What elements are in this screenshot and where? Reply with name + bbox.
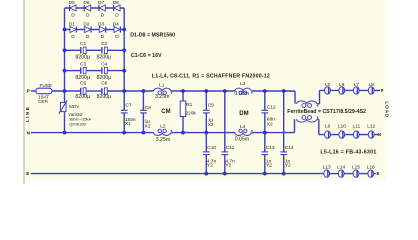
wire C12-C13 branch	[264, 91, 266, 174]
terminal N right	[378, 132, 381, 137]
svg-text:C14: C14	[285, 145, 294, 151]
svg-text:L16: L16	[367, 165, 375, 171]
svg-text:D: D	[86, 34, 90, 40]
junction E rail 2	[223, 172, 227, 176]
junction P rail 3	[142, 89, 146, 93]
wire N bead row	[319, 134, 379, 136]
svg-text:C4: C4	[101, 62, 107, 68]
svg-text:D7: D7	[98, 0, 104, 6]
junction P rail 1	[63, 89, 67, 93]
junction bridge 1	[63, 28, 67, 32]
capacitor C6	[97, 80, 112, 100]
svg-text:D1: D1	[69, 22, 75, 28]
svg-text:L12: L12	[367, 123, 375, 129]
svg-text:R1: R1	[186, 102, 192, 108]
note C1-C6	[131, 53, 162, 59]
svg-text:L8: L8	[369, 82, 375, 88]
junction bridge 3	[63, 48, 67, 52]
wire cap row2 b	[86, 70, 101, 72]
ferrite bead winding N	[297, 116, 319, 123]
ferrite bead L6	[339, 82, 345, 94]
svg-text:X2: X2	[145, 123, 151, 129]
wire diode row D5-D8	[65, 7, 125, 9]
svg-text:L3: L3	[240, 81, 246, 87]
note L5-L16	[320, 150, 376, 156]
svg-text:C11: C11	[226, 145, 235, 151]
svg-text:L5-L16 = FB-43-6301: L5-L16 = FB-43-6301	[320, 150, 376, 156]
wire P rail L1 to L3	[171, 90, 235, 92]
svg-text:C1: C1	[80, 41, 86, 47]
svg-text:DM: DM	[239, 111, 248, 117]
wire C8 branch	[142, 91, 144, 133]
svg-text:C12: C12	[267, 104, 276, 110]
terminal E right	[377, 171, 380, 176]
ferrite bead L9	[325, 123, 331, 138]
wire C14 branch	[283, 91, 285, 174]
wire P rail C5 to C6	[86, 90, 101, 92]
svg-text:D: D	[101, 34, 105, 40]
label LOAD	[383, 101, 389, 118]
svg-text:D4: D4	[113, 22, 119, 28]
svg-text:C7: C7	[125, 102, 131, 108]
svg-text:D: D	[71, 34, 75, 40]
fuse F1	[36, 83, 52, 104]
label CM	[161, 109, 170, 115]
junction N rail 4	[181, 131, 185, 135]
terminal P right	[381, 88, 384, 93]
terminal N left	[27, 130, 31, 135]
wire P ferrite down-leg	[294, 91, 296, 104]
svg-text:0.05m: 0.05m	[234, 91, 248, 97]
svg-text:Y2: Y2	[207, 163, 213, 169]
junction P rail 4	[181, 89, 185, 93]
svg-text:Y2: Y2	[285, 163, 291, 169]
capacitor C11	[221, 145, 235, 169]
capacitor C7	[121, 102, 136, 127]
svg-text:D: D	[86, 12, 90, 18]
svg-text:C6: C6	[101, 80, 107, 86]
inductor L1	[154, 83, 173, 100]
svg-text:L5: L5	[325, 82, 331, 88]
wire N ferrite riser	[318, 119, 320, 134]
terminal P left	[27, 89, 30, 94]
diode D4	[113, 22, 121, 40]
ferrite bead L8	[368, 82, 374, 94]
wire cap row2 c	[107, 70, 124, 72]
svg-text:D5: D5	[69, 0, 75, 6]
svg-text:L13: L13	[323, 165, 331, 171]
ferrite bead winding P	[297, 101, 319, 108]
svg-text:8200µ: 8200µ	[97, 94, 112, 100]
ferrite bead L11	[352, 123, 360, 138]
svg-text:D6: D6	[83, 0, 89, 6]
diode D7	[98, 0, 105, 18]
wire P rail C6 to L1	[107, 90, 153, 92]
capacitor C9	[203, 103, 214, 129]
svg-text:L1-L4, C8-C11, R1 = SCHAFFNER: L1-L4, C8-C11, R1 = SCHAFFNER FN2000-12	[152, 74, 270, 80]
svg-text:L6: L6	[339, 82, 345, 88]
svg-text:LOAD: LOAD	[383, 101, 389, 118]
junction P rail 7	[263, 89, 267, 93]
svg-text:CER: CER	[38, 99, 49, 104]
junction bridge 2	[122, 28, 126, 32]
ferrite bead L5	[325, 82, 331, 94]
junction N rail 6	[263, 131, 267, 135]
ferrite bead L7	[353, 82, 359, 94]
svg-text:D: D	[101, 12, 105, 18]
svg-text:L1: L1	[159, 83, 165, 89]
svg-text:L7: L7	[354, 82, 360, 88]
wire cap row1 a	[65, 49, 81, 51]
svg-text:D1-D8 = MSR1560: D1-D8 = MSR1560	[130, 32, 175, 38]
svg-text:C1-C6 = 16V: C1-C6 = 16V	[131, 53, 162, 59]
junction P rail 2	[122, 89, 126, 93]
wire cap row1 c	[107, 49, 124, 51]
svg-text:D3: D3	[98, 22, 104, 28]
wire right bridge vertical upper	[123, 8, 125, 110]
svg-text:E: E	[377, 171, 380, 176]
ferrite bead L10	[338, 123, 346, 138]
svg-text:8200µ: 8200µ	[75, 55, 90, 61]
inductor L2	[154, 124, 173, 143]
svg-text:L4: L4	[240, 124, 246, 130]
svg-text:C3: C3	[80, 62, 86, 68]
svg-text:3.25m: 3.25m	[155, 94, 169, 100]
junction bridge 4	[122, 48, 126, 52]
svg-text:220k: 220k	[185, 110, 196, 116]
junction N rail 2	[122, 131, 126, 135]
ferrite bead L15	[352, 165, 360, 178]
wire P bead row	[320, 89, 381, 91]
svg-text:L15: L15	[352, 165, 360, 171]
junction E rail 3	[263, 172, 267, 176]
svg-text:L9: L9	[325, 123, 331, 129]
diode D1	[69, 22, 77, 40]
svg-text:C13: C13	[266, 145, 275, 151]
wire N rail L4 to ferrite	[251, 132, 294, 134]
svg-text:FUSE: FUSE	[40, 83, 53, 88]
note D1-D8	[130, 32, 175, 38]
wire left bridge vertical	[64, 8, 66, 133]
wire N rail left	[31, 132, 154, 134]
capacitor C8	[140, 105, 151, 129]
note ferrite bead	[287, 109, 366, 115]
svg-text:X2: X2	[208, 122, 214, 128]
svg-text:Q20K300: Q20K300	[69, 122, 87, 127]
svg-text:E: E	[26, 171, 29, 176]
diode D3	[98, 22, 106, 40]
svg-text:8200µ: 8200µ	[75, 94, 90, 100]
label LINE	[25, 106, 31, 122]
svg-text:D2: D2	[83, 22, 89, 28]
svg-text:X1: X1	[125, 121, 131, 127]
svg-text:N: N	[378, 132, 381, 137]
svg-text:Y2: Y2	[225, 163, 231, 169]
capacitor C3	[75, 62, 90, 82]
terminal E left	[26, 171, 29, 176]
svg-text:0.05m: 0.05m	[235, 136, 249, 142]
svg-text:X2: X2	[267, 121, 273, 127]
resistor R1	[180, 101, 196, 117]
wire P ferrite to riser	[317, 103, 320, 105]
svg-text:C8: C8	[145, 105, 151, 111]
svg-text:L11: L11	[352, 123, 360, 129]
wire N ferrite to riser	[317, 118, 319, 120]
wire right bridge vertical lower	[123, 113, 125, 133]
wire P ferrite riser	[319, 90, 321, 103]
junction P rail 6	[223, 89, 227, 93]
ferrite bead L14	[337, 165, 345, 178]
capacitor C13	[261, 145, 275, 169]
svg-text:8200µ: 8200µ	[97, 55, 112, 61]
wire cap row1 b	[86, 49, 101, 51]
svg-text:C10: C10	[207, 145, 216, 151]
diode D8	[113, 0, 120, 18]
capacitor C2	[97, 41, 112, 61]
varistor MOV	[59, 100, 92, 126]
wire N rail L2 to L4	[171, 132, 235, 134]
ferrite bead L16	[367, 165, 375, 178]
junction P rail 5	[204, 89, 208, 93]
svg-text:FerriteBead = CST17/8.5/29-4S2: FerriteBead = CST17/8.5/29-4S2	[287, 109, 366, 115]
svg-text:Y2: Y2	[266, 163, 272, 169]
svg-text:L10: L10	[338, 123, 346, 129]
junction N rail 5	[204, 131, 208, 135]
junction P rail 8	[282, 89, 286, 93]
ferrite bead L12	[367, 123, 375, 138]
wire E rail	[31, 173, 376, 175]
wire cap row2 a	[65, 70, 81, 72]
diode D6	[83, 0, 90, 18]
label DM	[239, 111, 248, 117]
svg-text:3.25m: 3.25m	[156, 137, 170, 143]
svg-text:D: D	[115, 34, 119, 40]
svg-text:8200µ: 8200µ	[75, 75, 90, 81]
junction N rail 3	[142, 131, 146, 135]
wire C11 branch	[224, 91, 226, 174]
wire P rail L3 to ferrite	[251, 90, 295, 92]
svg-text:D: D	[115, 12, 119, 18]
note schaffner	[152, 74, 270, 80]
svg-text:P: P	[381, 88, 384, 93]
diode D2	[83, 22, 91, 40]
wire C9-C10 branch	[205, 91, 207, 174]
junction bridge 6	[122, 69, 126, 73]
capacitor C4	[97, 62, 112, 82]
svg-text:C9: C9	[208, 103, 214, 109]
junction N rail 1	[63, 131, 67, 135]
svg-text:LINE: LINE	[25, 106, 31, 122]
svg-text:C5: C5	[80, 80, 86, 86]
svg-text:C2: C2	[101, 41, 107, 47]
svg-text:L2: L2	[160, 124, 166, 130]
svg-text:L14: L14	[337, 165, 345, 171]
svg-text:MOV: MOV	[69, 104, 79, 109]
capacitor C12	[261, 104, 275, 127]
capacitor C5	[75, 80, 90, 100]
svg-text:D: D	[71, 12, 75, 18]
svg-text:8200µ: 8200µ	[97, 75, 112, 81]
diode D5	[69, 0, 76, 18]
capacitor C1	[75, 41, 90, 61]
wire P rail from terminal to fuse	[31, 90, 37, 92]
inductor L4	[235, 124, 253, 142]
capacitor C14	[280, 145, 294, 169]
svg-text:CM: CM	[161, 109, 170, 115]
svg-text:D8: D8	[113, 0, 119, 6]
inductor L3	[234, 81, 252, 97]
svg-text:P: P	[27, 89, 30, 94]
ferrite bead L13	[323, 165, 331, 178]
wire R1 branch	[182, 91, 184, 133]
wire N ferrite up-leg	[294, 119, 296, 132]
junction bridge 5	[63, 69, 67, 73]
junction E rail 4	[282, 172, 286, 176]
junction E rail 1	[204, 172, 208, 176]
wire P rail fuse to C5	[52, 90, 80, 92]
capacitor C10	[203, 145, 217, 169]
wire diode row D1-D4	[65, 29, 125, 31]
